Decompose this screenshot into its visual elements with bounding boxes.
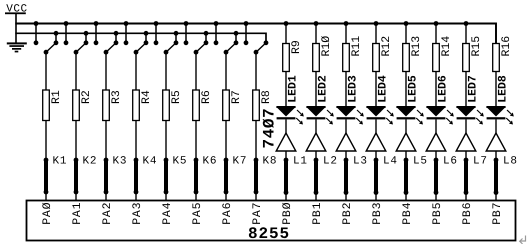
svg-text:L7: L7 xyxy=(473,156,488,168)
svg-text:R1: R1 xyxy=(50,90,63,104)
svg-text:LED3: LED3 xyxy=(347,75,360,103)
svg-text:L8: L8 xyxy=(503,156,518,168)
svg-text:R2: R2 xyxy=(80,90,93,104)
svg-text:R14: R14 xyxy=(440,36,453,57)
svg-text:K4: K4 xyxy=(143,156,158,168)
svg-text:L1: L1 xyxy=(293,156,308,168)
svg-text:PB3: PB3 xyxy=(371,202,384,225)
svg-text:R4: R4 xyxy=(140,90,153,104)
svg-text:PB2: PB2 xyxy=(341,202,354,225)
svg-text:PB7: PB7 xyxy=(491,202,504,225)
svg-text:74Ø7: 74Ø7 xyxy=(261,108,279,149)
svg-text:PBØ: PBØ xyxy=(281,202,294,225)
svg-text:8255: 8255 xyxy=(248,225,290,243)
svg-text:PA2: PA2 xyxy=(101,202,114,225)
svg-text:L4: L4 xyxy=(383,156,398,168)
svg-text:R16: R16 xyxy=(500,36,513,57)
svg-text:L5: L5 xyxy=(413,156,428,168)
svg-text:R8: R8 xyxy=(260,90,273,104)
svg-text:PA6: PA6 xyxy=(221,202,234,225)
svg-text:PA4: PA4 xyxy=(161,202,174,225)
svg-text:K3: K3 xyxy=(113,156,128,168)
svg-text:PB1: PB1 xyxy=(311,202,324,225)
svg-text:PB5: PB5 xyxy=(431,202,444,225)
svg-text:PB4: PB4 xyxy=(401,202,414,225)
svg-text:R5: R5 xyxy=(170,90,183,104)
svg-text:K6: K6 xyxy=(203,156,218,168)
svg-text:R6: R6 xyxy=(200,90,213,104)
svg-text:LED2: LED2 xyxy=(317,75,330,103)
svg-text:R1Ø: R1Ø xyxy=(320,36,333,57)
svg-text:K5: K5 xyxy=(173,156,188,168)
svg-text:K8: K8 xyxy=(263,156,278,168)
svg-text:R12: R12 xyxy=(380,36,393,57)
svg-text:K2: K2 xyxy=(83,156,98,168)
svg-text:K1: K1 xyxy=(53,156,68,168)
svg-text:L3: L3 xyxy=(353,156,368,168)
svg-text:R13: R13 xyxy=(410,36,423,57)
svg-text:PB6: PB6 xyxy=(461,202,474,225)
svg-text:R9: R9 xyxy=(290,40,303,54)
svg-text:LED1: LED1 xyxy=(287,75,300,103)
svg-text:PA5: PA5 xyxy=(191,202,204,225)
svg-text:K7: K7 xyxy=(233,156,248,168)
svg-text:LED4: LED4 xyxy=(377,75,390,103)
svg-text:R11: R11 xyxy=(350,36,363,57)
svg-text:L6: L6 xyxy=(443,156,458,168)
svg-text:LED6: LED6 xyxy=(437,75,450,103)
svg-text:PA7: PA7 xyxy=(251,202,264,225)
svg-text:PAØ: PAØ xyxy=(41,202,54,225)
svg-text:LED8: LED8 xyxy=(497,75,510,103)
svg-text:PA3: PA3 xyxy=(131,202,144,225)
svg-text:R3: R3 xyxy=(110,90,123,104)
svg-text:PA1: PA1 xyxy=(71,202,84,225)
svg-text:LED7: LED7 xyxy=(467,75,480,103)
svg-text:L2: L2 xyxy=(323,156,338,168)
svg-text:LED5: LED5 xyxy=(407,75,420,103)
svg-text:R7: R7 xyxy=(230,90,243,104)
svg-text:R15: R15 xyxy=(470,36,483,57)
